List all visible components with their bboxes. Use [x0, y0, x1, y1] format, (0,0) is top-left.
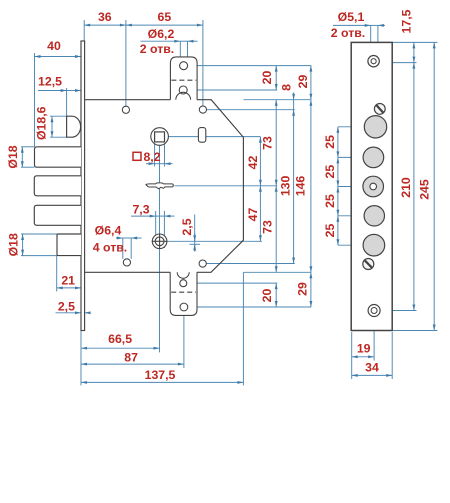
extension bottom screw hole down [373, 317, 375, 361]
svg-text:21: 21 [61, 274, 75, 288]
extension line faceplate top [83, 20, 85, 41]
hub axis extension [166, 240, 262, 242]
svg-text:12,5: 12,5 [38, 75, 62, 89]
body mounting hole top-left [122, 106, 129, 113]
bottom tab [170, 272, 197, 315]
square follower circle [151, 128, 169, 146]
bolt hole C5 [363, 234, 385, 256]
svg-text:47: 47 [246, 208, 260, 222]
row extension: top tab hole [189, 65, 312, 67]
extension lines d5.1 hole [370, 25, 372, 56]
dimension 137.5 [81, 381, 243, 383]
svg-text:210: 210 [399, 177, 413, 198]
bolt hole C3 inner [370, 183, 377, 190]
cylinder hub outer [152, 234, 167, 249]
svg-text:Ø6,4: Ø6,4 [95, 224, 122, 238]
svg-text:146: 146 [294, 176, 308, 197]
extension line latch face [66, 88, 68, 116]
dimension 245 [433, 42, 435, 330]
svg-text:8,2: 8,2 [143, 150, 160, 164]
extension lines bolt R4 [21, 233, 57, 235]
dimension 146 [310, 100, 312, 273]
faceplate front outline [351, 42, 392, 330]
dimension 2.5 hub offset line [194, 215, 196, 252]
extension bottom screw hole right [381, 310, 417, 312]
dimension 36 [84, 24, 126, 26]
svg-text:Ø6,2: Ø6,2 [148, 27, 175, 41]
dimension 20 bottom [275, 283, 277, 307]
dimension 19 [352, 356, 374, 358]
extension lines d6.2 hole [179, 41, 181, 62]
bottom tab small circle [180, 280, 187, 287]
bottom tab screw hole [180, 303, 188, 311]
dimension 42 [259, 137, 261, 186]
bottom tab arc notch [177, 272, 189, 278]
row extension: bottom tab hole [188, 306, 311, 308]
centerline through follower/key/hub [159, 144, 161, 352]
extension plate top right [392, 41, 437, 43]
svg-text:25: 25 [323, 165, 337, 179]
extension lines latch top/bottom [50, 115, 67, 117]
dimension d18 (R4) [22, 234, 24, 256]
top tab small circle [179, 86, 187, 94]
bolt hole C2 [363, 147, 384, 168]
cylinder hub inner [155, 237, 164, 246]
svg-text:36: 36 [98, 10, 112, 24]
extension plate bottom right [392, 330, 437, 332]
svg-text:20: 20 [260, 71, 274, 85]
extension plate bottom-right down [391, 332, 393, 379]
dimension 47 [259, 186, 261, 242]
deadbolt R4 short [57, 234, 81, 256]
svg-text:34: 34 [365, 361, 379, 375]
extension lines bolt R1 [21, 146, 35, 148]
extension line top-left body hole [125, 20, 127, 107]
dimension 20 top [275, 66, 277, 90]
square follower square 8.2 [155, 132, 165, 142]
svg-text:20: 20 [260, 289, 274, 303]
dimension 130 [293, 110, 295, 264]
svg-text:25: 25 [323, 135, 337, 149]
bottom tab dashed line [171, 291, 196, 293]
svg-text:73: 73 [261, 220, 275, 234]
svg-text:2 отв.: 2 отв. [140, 42, 174, 56]
svg-text:130: 130 [279, 175, 293, 196]
deadbolt R3 [34, 205, 81, 225]
svg-text:245: 245 [417, 179, 431, 200]
dimension 210 [413, 63, 415, 311]
svg-text:42: 42 [246, 156, 260, 170]
extension plate bottom-left down [351, 332, 353, 379]
svg-text:Ø18,6: Ø18,6 [35, 106, 49, 140]
svg-text:25: 25 [323, 194, 337, 208]
body mounting hole bottom-right [199, 260, 206, 267]
dimension d6.4 arrows [116, 237, 123, 239]
bottom screw hole inner [371, 308, 377, 314]
row extension: body top [244, 99, 312, 101]
dimension d6.2 arrows [141, 40, 181, 42]
dimension d5.1 arrows [333, 24, 371, 26]
row extension: body bottom [244, 271, 312, 273]
dimension d18.6 [51, 116, 53, 137]
bottom screw head [363, 259, 374, 270]
latch bolt [67, 116, 81, 137]
svg-text:66,5: 66,5 [108, 332, 132, 346]
row extension: top body holes [206, 109, 294, 111]
extension lines square 8.2 [154, 142, 156, 167]
svg-text:29: 29 [296, 75, 310, 89]
extension line R4 face [56, 256, 58, 292]
svg-text:4 отв.: 4 отв. [93, 241, 127, 255]
dimension 8.2 [146, 163, 155, 165]
bottom reference extension (faceplate) [80, 331, 82, 386]
extension line top-right body hole (vertical) [202, 20, 204, 106]
extension bottom tab hole down [183, 311, 185, 368]
dimension 7.3 [131, 215, 156, 217]
svg-text:137,5: 137,5 [145, 368, 176, 382]
dimension 29 bottom [310, 272, 312, 307]
svg-text:Ø18: Ø18 [6, 145, 20, 168]
deadbolt R2 [34, 176, 81, 196]
extension body right edge down [242, 272, 244, 385]
25-dim stubs to circles [338, 126, 364, 128]
svg-text:73: 73 [261, 136, 275, 150]
dimension 25 x4 [337, 127, 339, 158]
extension top screw hole right [380, 62, 417, 64]
svg-text:Ø18: Ø18 [7, 233, 21, 256]
svg-text:2 отв.: 2 отв. [331, 26, 365, 40]
bolt hole C3 [363, 176, 384, 197]
bottom screw hole outer [368, 305, 380, 317]
dimension 8 [293, 93, 295, 100]
dimension 12.5 [38, 90, 67, 92]
hub cross lines [152, 240, 168, 242]
top screw hole outer [368, 56, 379, 67]
svg-text:29: 29 [296, 282, 310, 296]
keyhole bit symbol [146, 183, 173, 189]
svg-text:25: 25 [323, 224, 337, 238]
dimension d18 (R1) [21, 147, 23, 167]
top screw head [374, 104, 385, 115]
dimension 66.5 [81, 347, 160, 349]
top tab [170, 57, 197, 100]
svg-text:87: 87 [124, 351, 138, 365]
deadbolt R1 [35, 147, 82, 167]
body mounting hole bottom-left [123, 259, 130, 266]
svg-text:2,5: 2,5 [58, 300, 75, 314]
dimension 29 top [310, 66, 312, 100]
label square 8.2 [133, 152, 141, 160]
svg-text:19: 19 [357, 341, 371, 355]
top screw hole inner [371, 59, 376, 64]
dimension 17.5 [413, 42, 415, 62]
bolt hole C4 [364, 206, 384, 226]
svg-text:7,3: 7,3 [132, 203, 149, 217]
top tab dashed line [171, 79, 196, 81]
svg-text:17,5: 17,5 [400, 9, 414, 33]
dimension 21 [57, 287, 81, 289]
bolt hole C1 (latch) [364, 116, 386, 138]
svg-text:2,5: 2,5 [180, 218, 194, 235]
row extension: keyhole [175, 185, 278, 187]
dimension 40 [35, 56, 82, 58]
top tab screw hole [180, 62, 188, 70]
dimension 73 upper [275, 100, 277, 186]
row extension: bottom body holes [206, 263, 295, 265]
svg-text:Ø5,1: Ø5,1 [338, 10, 365, 24]
extension line bolt face [34, 53, 36, 147]
lock body outline [85, 100, 244, 273]
dimension 87 [81, 363, 184, 365]
row extension: square follower [169, 136, 261, 138]
dimension 34 [352, 374, 393, 376]
extension lines d6.4 hole [122, 238, 124, 259]
dimension 2.5 plate thickness [56, 312, 82, 314]
dimension 73 lower [275, 186, 277, 272]
svg-text:8: 8 [280, 84, 294, 91]
top tab arc notch [176, 92, 191, 99]
dimension 65 [126, 24, 203, 26]
svg-text:65: 65 [158, 10, 172, 24]
row extension: top tab small circle [188, 89, 278, 91]
faceplate strip (edge view) [81, 41, 85, 331]
body mounting hole top-right [199, 106, 206, 113]
row extension: bottom tab small circle [187, 282, 277, 284]
svg-text:40: 40 [47, 39, 61, 53]
extension lines 7.3 [155, 211, 157, 248]
spring slot [198, 128, 205, 143]
